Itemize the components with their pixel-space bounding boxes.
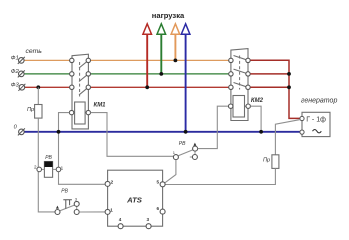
blade	[178, 150, 193, 156]
KM2 coil	[233, 96, 245, 118]
arrow mark	[193, 143, 196, 146]
KM1 linkage dashed	[79, 62, 81, 97]
ATS box	[108, 170, 163, 226]
delay symbol	[63, 200, 72, 209]
wire RV NO contact to KM2 coil	[198, 106, 229, 148]
wire KM1 coil left to neutral and down to ATS2	[59, 113, 105, 185]
contactor KM2 body	[231, 49, 248, 121]
junction dot L3/red at fuse tap	[36, 85, 40, 89]
junction dot red pole3	[287, 85, 291, 89]
svg-text:Ф1: Ф1	[11, 56, 19, 62]
wire KM2 output pole3 red	[250, 86, 289, 88]
load arrow blue	[185, 33, 187, 132]
junction dot KM2 coil on neutral	[259, 130, 263, 134]
common circle	[55, 210, 60, 215]
svg-text:4: 4	[119, 217, 122, 222]
KM2 pole 1	[234, 56, 249, 61]
svg-text:сеть: сеть	[26, 48, 43, 55]
wire KM2 output pole2 red	[250, 73, 289, 75]
wire phase L3 red: terminal Ф3 to KM1	[25, 86, 70, 88]
contactor KM1 body	[72, 54, 88, 129]
KM2 pole 2	[234, 69, 249, 74]
NO contact circle	[74, 201, 79, 206]
wire KM1 coil right down to RV switch common	[91, 113, 174, 157]
KM1 pole 1	[79, 60, 88, 68]
blade	[60, 205, 76, 211]
common circle	[173, 155, 178, 160]
NO contact circle	[193, 146, 198, 151]
generator box Г-1Ф	[302, 112, 330, 136]
wire phase L2 green: KM1 to KM2	[91, 73, 229, 75]
svg-text:ATS: ATS	[126, 195, 143, 204]
svg-text:1: 1	[110, 208, 113, 213]
KM2 linkage dashed	[239, 56, 241, 90]
tick	[190, 156, 193, 158]
svg-text:5: 5	[157, 179, 160, 184]
svg-text:Пр: Пр	[263, 157, 270, 163]
svg-text:2: 2	[111, 179, 114, 184]
junction dot blue arrow on neutral	[184, 130, 188, 134]
wire phase L2 green: terminal Ф2 to KM1	[24, 73, 70, 75]
junction dot red arrow on L3	[145, 85, 149, 89]
link between contacts	[76, 206, 78, 209]
wire RV common down to ATS5	[164, 160, 176, 184]
wire fuse to ATS5	[165, 168, 275, 184]
load arrow orange	[174, 33, 176, 60]
junction dot green arrow on L2	[159, 72, 163, 76]
KM1 coil	[75, 102, 86, 124]
lower contact circle	[74, 210, 79, 215]
KM1 pole 3	[79, 87, 88, 95]
wire phase L1 orange: KM1 to KM2	[91, 59, 229, 61]
svg-text:6: 6	[157, 206, 160, 211]
wire from fuse down to RV delay contact	[38, 118, 55, 212]
load arrow green	[160, 33, 162, 74]
wire neutral blue	[24, 131, 301, 133]
svg-text:Пр: Пр	[27, 107, 34, 113]
wire KM2 coil right to neutral	[251, 106, 262, 132]
arrow mark	[56, 206, 59, 209]
svg-text:РВ: РВ	[179, 141, 186, 147]
generator sine symbol	[313, 130, 322, 133]
KM1 pole 2	[79, 74, 88, 82]
wire KM2 output pole1 red	[250, 60, 302, 118]
svg-text:РВ: РВ	[61, 189, 68, 195]
wire phase L1 orange: terminal Ф1 to KM1	[24, 59, 70, 61]
NC contact circle	[192, 155, 197, 160]
junction dot red pole2	[287, 72, 291, 76]
svg-text:Г - 1ф: Г - 1ф	[306, 116, 326, 123]
svg-text:3: 3	[147, 217, 150, 222]
wire phase L3 red: KM1 to KM2	[91, 86, 229, 88]
wire generator sense diagonal to fuse	[275, 120, 300, 155]
junction dot coil-left on neutral	[57, 130, 61, 134]
svg-text:генератор: генератор	[301, 98, 337, 105]
generator phase terminal	[300, 116, 304, 120]
svg-text:КМ2: КМ2	[251, 98, 264, 104]
generator neutral terminal	[300, 130, 304, 134]
svg-text:КМ1: КМ1	[94, 103, 107, 109]
wire RV delay to ATS1	[79, 211, 105, 213]
KM2 pole 3	[234, 83, 249, 88]
svg-text:Ф3: Ф3	[11, 83, 20, 89]
svg-text:нагрузка: нагрузка	[152, 11, 185, 20]
junction dot orange arrow on L1	[174, 59, 178, 63]
svg-text:РВ: РВ	[45, 155, 52, 161]
load arrow red	[146, 33, 148, 87]
link between contacts	[194, 151, 196, 155]
